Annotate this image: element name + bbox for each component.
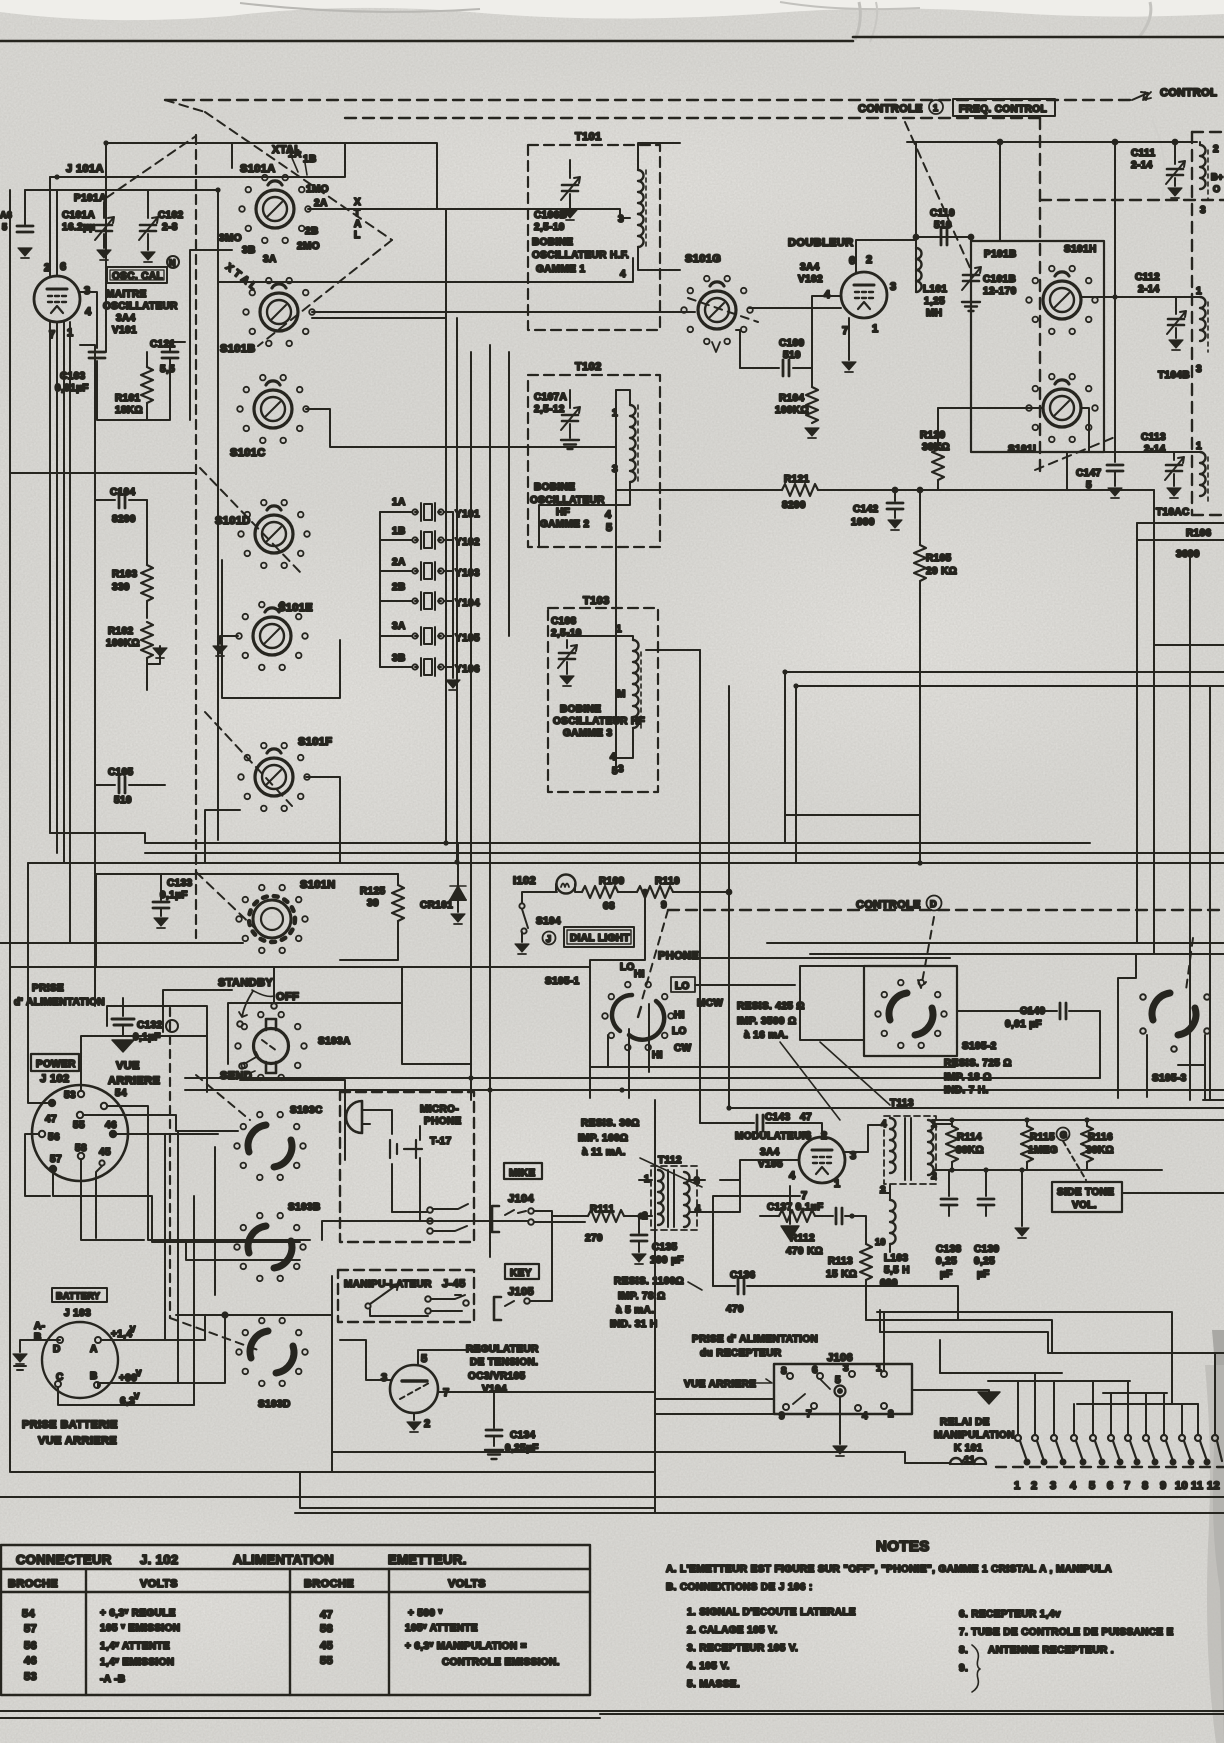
svg-text:100KΩ: 100KΩ bbox=[106, 638, 140, 649]
svg-text:T10AC: T10AC bbox=[1156, 507, 1190, 518]
dashed into S105-3 bbox=[1186, 938, 1193, 990]
svg-text:1,4ᵛ ATTENTE: 1,4ᵛ ATTENTE bbox=[100, 1641, 170, 1652]
svg-text:J106: J106 bbox=[827, 1352, 853, 1364]
dashed gang S103 vertical bbox=[169, 1008, 171, 1318]
capacitor C110 bbox=[941, 229, 947, 245]
svg-text:K 101: K 101 bbox=[954, 1443, 983, 1454]
svg-text:R113: R113 bbox=[828, 1256, 853, 1267]
svg-text:J-45: J-45 bbox=[442, 1278, 466, 1290]
dashed controle bus 1 bbox=[165, 99, 1132, 101]
svg-text:3A: 3A bbox=[392, 621, 406, 632]
svg-text:POWER: POWER bbox=[36, 1059, 76, 1070]
tube V104 bbox=[390, 1365, 438, 1413]
svg-text:3: 3 bbox=[880, 1185, 886, 1196]
svg-text:B: B bbox=[90, 1371, 98, 1382]
svg-text:330: 330 bbox=[112, 582, 130, 593]
freq control box bbox=[953, 99, 1055, 116]
svg-text:RESIS. 425 Ω: RESIS. 425 Ω bbox=[737, 1001, 805, 1012]
wire grid bus bbox=[50, 190, 218, 840]
svg-text:58: 58 bbox=[320, 1623, 333, 1635]
svg-text:46: 46 bbox=[24, 1655, 37, 1667]
svg-text:2B: 2B bbox=[392, 582, 406, 593]
svg-text:S101E: S101E bbox=[278, 602, 313, 614]
svg-text:2: 2 bbox=[821, 1130, 828, 1142]
svg-text:C112: C112 bbox=[1135, 272, 1160, 283]
svg-text:2,5-10: 2,5-10 bbox=[534, 222, 565, 233]
svg-text:P101A: P101A bbox=[74, 193, 107, 204]
wire left edge bbox=[25, 190, 50, 224]
svg-text:S105-3: S105-3 bbox=[1152, 1073, 1187, 1084]
svg-text:S101G: S101G bbox=[685, 253, 721, 265]
svg-text:C139: C139 bbox=[974, 1244, 1000, 1255]
svg-text:15 KΩ: 15 KΩ bbox=[826, 1269, 857, 1280]
capacitor C104 bbox=[119, 492, 125, 508]
svg-text:46: 46 bbox=[105, 1120, 117, 1131]
svg-text:4: 4 bbox=[610, 752, 616, 763]
svg-text:IMP. 78 Ω: IMP. 78 Ω bbox=[618, 1291, 666, 1302]
svg-text:3: 3 bbox=[1050, 1480, 1057, 1492]
svg-text:BATTERY: BATTERY bbox=[56, 1291, 100, 1301]
svg-text:45: 45 bbox=[99, 1147, 111, 1158]
svg-text:RESIS. 1100Ω: RESIS. 1100Ω bbox=[614, 1276, 684, 1287]
svg-text:C135: C135 bbox=[652, 1242, 678, 1253]
svg-text:T104B: T104B bbox=[1158, 370, 1190, 381]
svg-text:1: 1 bbox=[1196, 441, 1202, 452]
wire v101 pin3 bbox=[80, 292, 97, 348]
svg-text:5: 5 bbox=[1089, 1480, 1096, 1492]
svg-text:R120: R120 bbox=[920, 430, 946, 441]
svg-text:MANIPULATION: MANIPULATION bbox=[934, 1430, 1015, 1441]
capacitor C138 bbox=[948, 1170, 950, 1196]
svg-text:MIKE: MIKE bbox=[509, 1168, 536, 1179]
svg-text:3A: 3A bbox=[263, 254, 277, 265]
wire box around switches bbox=[190, 143, 340, 862]
svg-text:L101: L101 bbox=[923, 284, 947, 295]
svg-text:D: D bbox=[53, 1344, 61, 1355]
svg-text:V101: V101 bbox=[112, 325, 137, 336]
svg-text:510: 510 bbox=[934, 220, 952, 231]
svg-text:9: 9 bbox=[661, 900, 667, 911]
svg-text:54: 54 bbox=[22, 1608, 36, 1620]
svg-text:SIDE TONE: SIDE TONE bbox=[1057, 1187, 1114, 1198]
wire S101I right bbox=[1082, 408, 1195, 452]
crystal Y101 bbox=[412, 503, 443, 521]
svg-text:PRISE d' ALIMENTATION: PRISE d' ALIMENTATION bbox=[692, 1334, 818, 1345]
svg-text:20 KΩ: 20 KΩ bbox=[926, 566, 957, 577]
ground under crystals bbox=[446, 680, 460, 690]
svg-text:S103D: S103D bbox=[258, 1399, 291, 1410]
wire y1120 bbox=[729, 1108, 1224, 1120]
svg-text:47: 47 bbox=[45, 1114, 57, 1125]
svg-text:S101C: S101C bbox=[230, 447, 266, 459]
mic symbol bbox=[346, 1101, 362, 1133]
MIKE box bbox=[504, 1163, 542, 1179]
wire to V102 bbox=[749, 307, 841, 309]
svg-text:1B: 1B bbox=[392, 526, 406, 537]
dashed pointer to C101B bbox=[905, 122, 971, 270]
svg-text:IMP. 3500 Ω: IMP. 3500 Ω bbox=[737, 1016, 797, 1027]
svg-text:Y102: Y102 bbox=[455, 537, 480, 548]
capacitor C139 bbox=[985, 1170, 987, 1196]
svg-text:BOBINE: BOBINE bbox=[532, 237, 573, 248]
svg-text:J105: J105 bbox=[508, 1286, 534, 1298]
svg-text:2MO: 2MO bbox=[297, 241, 320, 252]
svg-text:-A -B: -A -B bbox=[100, 1674, 126, 1685]
svg-text:7: 7 bbox=[1124, 1480, 1131, 1492]
svg-text:57: 57 bbox=[24, 1623, 37, 1635]
svg-text:C147: C147 bbox=[1076, 468, 1102, 479]
svg-text:G: G bbox=[1060, 1130, 1067, 1140]
svg-text:V: V bbox=[130, 1325, 136, 1334]
svg-text:1: 1 bbox=[1196, 286, 1202, 297]
svg-text:MAITRE: MAITRE bbox=[106, 289, 147, 300]
svg-text:J 103: J 103 bbox=[64, 1308, 91, 1319]
svg-text:I102: I102 bbox=[513, 875, 536, 887]
svg-text:4: 4 bbox=[695, 1204, 701, 1215]
wire J101A horizontal bbox=[50, 143, 345, 177]
svg-text:C107A: C107A bbox=[534, 392, 567, 403]
switch S103B bbox=[248, 1226, 292, 1268]
capacitor C134 bbox=[438, 1392, 494, 1428]
svg-text:12-170: 12-170 bbox=[983, 286, 1017, 297]
crystal Y103 bbox=[412, 562, 443, 580]
dashed controle D line bbox=[668, 909, 1224, 911]
svg-text:3: 3 bbox=[890, 281, 897, 293]
svg-text:KEY: KEY bbox=[510, 1268, 532, 1279]
svg-text:REGULATEUR: REGULATEUR bbox=[466, 1344, 539, 1355]
transformer T103 box bbox=[548, 608, 658, 792]
svg-text:CONNECTEUR: CONNECTEUR bbox=[16, 1552, 112, 1567]
connector J102 bbox=[32, 1085, 128, 1181]
wire box C132 bbox=[107, 998, 207, 1092]
svg-text:L103: L103 bbox=[884, 1253, 908, 1264]
wire bus y686 bbox=[796, 686, 1224, 862]
svg-text:X: X bbox=[354, 197, 361, 208]
svg-text:68: 68 bbox=[603, 901, 615, 912]
svg-text:2A: 2A bbox=[314, 198, 328, 209]
svg-text:B: B bbox=[34, 1332, 42, 1343]
table connecteur J102 bbox=[1, 1545, 590, 1695]
svg-text:5: 5 bbox=[2, 222, 7, 232]
svg-text:54: 54 bbox=[115, 1088, 127, 1099]
svg-text:470: 470 bbox=[726, 1304, 744, 1315]
crystal Y102 bbox=[412, 531, 443, 549]
svg-text:A-: A- bbox=[34, 1321, 45, 1332]
svg-text:2-8: 2-8 bbox=[162, 222, 178, 233]
svg-text:J. 102: J. 102 bbox=[140, 1552, 179, 1567]
svg-text:5: 5 bbox=[421, 1353, 428, 1365]
svg-text:ANTENNE RECEPTEUR .: ANTENNE RECEPTEUR . bbox=[988, 1645, 1114, 1656]
svg-text:5. MASSE.: 5. MASSE. bbox=[687, 1679, 740, 1690]
svg-text:OSCILLATEUR: OSCILLATEUR bbox=[103, 301, 178, 312]
svg-text:45: 45 bbox=[320, 1640, 333, 1652]
svg-text:S101A: S101A bbox=[240, 163, 276, 175]
trimmer C106B bbox=[569, 160, 571, 178]
wire V105 pin3 to T113 bbox=[845, 1125, 884, 1152]
svg-text:C132: C132 bbox=[137, 1020, 163, 1031]
coil L103 bbox=[890, 1200, 896, 1244]
svg-text:2. CALAGE 105 V.: 2. CALAGE 105 V. bbox=[687, 1625, 778, 1636]
svg-text:µF: µF bbox=[977, 1269, 990, 1280]
switch S103A bbox=[254, 1019, 289, 1073]
svg-text:3: 3 bbox=[612, 464, 618, 475]
coil T104C bbox=[1200, 452, 1206, 496]
ground arrow big bbox=[912, 1390, 989, 1392]
switch S103C bbox=[248, 1125, 292, 1167]
wire middle horizontals bbox=[185, 1067, 1224, 1090]
svg-text:R101: R101 bbox=[115, 393, 141, 404]
wire V105 pin4 bbox=[720, 1160, 799, 1212]
svg-text:VOLTS: VOLTS bbox=[448, 1578, 486, 1590]
wire vertical x616 bbox=[615, 390, 617, 758]
svg-text:510: 510 bbox=[114, 795, 132, 806]
contact circle bbox=[166, 1020, 178, 1032]
svg-text:C121: C121 bbox=[150, 339, 176, 350]
wire to tube bbox=[50, 177, 57, 276]
POWER box bbox=[31, 1054, 79, 1071]
svg-text:0,1µF: 0,1µF bbox=[160, 890, 188, 901]
ground arrow bbox=[1021, 1170, 1023, 1226]
svg-text:C111: C111 bbox=[1131, 148, 1155, 159]
svg-text:5: 5 bbox=[612, 766, 618, 777]
coil T104A bbox=[1199, 142, 1201, 145]
wire bus y943 bbox=[0, 942, 243, 944]
svg-text:57: 57 bbox=[50, 1154, 62, 1165]
svg-text:DOUBLEUR: DOUBLEUR bbox=[788, 237, 854, 249]
svg-text:9: 9 bbox=[1160, 1480, 1167, 1492]
svg-text:2-14: 2-14 bbox=[1138, 284, 1160, 295]
svg-text:C108: C108 bbox=[551, 616, 577, 627]
svg-text:2: 2 bbox=[424, 1418, 431, 1430]
svg-text:S103A: S103A bbox=[318, 1036, 351, 1047]
svg-text:C104: C104 bbox=[110, 487, 136, 498]
svg-text:1A: 1A bbox=[392, 497, 406, 508]
wire frame S103 bbox=[163, 840, 470, 1295]
manipulateur box bbox=[338, 1270, 474, 1322]
svg-text:S104: S104 bbox=[536, 916, 561, 927]
svg-text:RELAI DE: RELAI DE bbox=[940, 1417, 990, 1428]
svg-text:T101: T101 bbox=[575, 131, 602, 143]
svg-text:MCW: MCW bbox=[697, 998, 723, 1009]
svg-text:S101H: S101H bbox=[1064, 244, 1097, 255]
svg-text:4. 105 V.: 4. 105 V. bbox=[687, 1661, 730, 1672]
svg-text:V102: V102 bbox=[798, 274, 823, 285]
capacitor C143 bbox=[700, 1123, 822, 1136]
svg-text:C142: C142 bbox=[853, 504, 879, 515]
svg-text:8: 8 bbox=[781, 1366, 787, 1377]
svg-text:OSC. CAL: OSC. CAL bbox=[112, 271, 163, 282]
wire bus y672 bbox=[785, 672, 1224, 843]
svg-text:N: N bbox=[169, 258, 176, 268]
capacitor C132 bbox=[122, 1006, 124, 1016]
svg-text:J: J bbox=[546, 934, 551, 944]
svg-text:105 ᵛ EMISSION: 105 ᵛ EMISSION bbox=[100, 1623, 180, 1634]
svg-text:C101B: C101B bbox=[983, 274, 1016, 285]
wire bus y843 bbox=[50, 833, 1090, 843]
svg-text:5,5: 5,5 bbox=[160, 364, 175, 375]
svg-text:LO: LO bbox=[675, 981, 690, 992]
svg-text:GAMME 1: GAMME 1 bbox=[536, 264, 586, 275]
crystal Y106 bbox=[412, 658, 443, 676]
svg-text:B. CONNEXTIONS DE J 106 :: B. CONNEXTIONS DE J 106 : bbox=[666, 1582, 813, 1593]
wire frame y967 bbox=[10, 966, 590, 968]
switch S105-2 bbox=[889, 993, 933, 1035]
wire plate y282 bbox=[218, 258, 633, 282]
ground V104 bbox=[413, 1413, 415, 1420]
wire S101H right bbox=[1082, 296, 1195, 298]
svg-text:R115: R115 bbox=[1030, 1132, 1055, 1143]
svg-text:1. SIGNAL D'ECOUTE LATERALE: 1. SIGNAL D'ECOUTE LATERALE bbox=[687, 1607, 856, 1618]
svg-text:1,25: 1,25 bbox=[924, 296, 945, 307]
svg-text:6: 6 bbox=[60, 261, 67, 273]
svg-text:C109: C109 bbox=[779, 338, 805, 349]
svg-text:D: D bbox=[930, 899, 937, 909]
svg-text:3. RECEPTEUR 105 V.: 3. RECEPTEUR 105 V. bbox=[687, 1643, 798, 1654]
svg-text:A. L'EMETTEUR EST FIGURE SU: A. L'EMETTEUR EST FIGURE SUR "OFF", "PHO… bbox=[666, 1564, 1112, 1575]
svg-text:C110: C110 bbox=[930, 208, 955, 219]
svg-text:GAMME 3: GAMME 3 bbox=[563, 728, 613, 739]
tube V101 bbox=[34, 276, 80, 322]
svg-text:R114: R114 bbox=[957, 1132, 982, 1143]
svg-text:J104: J104 bbox=[508, 1193, 535, 1205]
KEY box bbox=[505, 1264, 539, 1279]
svg-text:600: 600 bbox=[880, 1278, 898, 1289]
svg-text:NOTES: NOTES bbox=[876, 1538, 930, 1555]
svg-text:S105-2: S105-2 bbox=[962, 1041, 997, 1052]
wire pins down bbox=[50, 322, 70, 943]
svg-text:R110: R110 bbox=[655, 876, 680, 887]
svg-text:PRISE: PRISE bbox=[32, 983, 64, 994]
svg-text:O: O bbox=[1213, 184, 1220, 194]
phone jack bbox=[612, 995, 632, 1031]
top paper edge bbox=[0, 0, 1224, 20]
box S101H bbox=[971, 241, 1104, 452]
svg-text:BOBINE: BOBINE bbox=[560, 704, 601, 715]
svg-text:ARRIERE: ARRIERE bbox=[108, 1075, 160, 1087]
svg-text:3: 3 bbox=[694, 1176, 700, 1187]
svg-text:4: 4 bbox=[1070, 1480, 1077, 1492]
svg-text:12: 12 bbox=[1207, 1480, 1220, 1492]
dashed to S105-2 bbox=[918, 917, 934, 988]
side tone box bbox=[1052, 1182, 1122, 1212]
svg-text:8.: 8. bbox=[959, 1645, 968, 1656]
svg-text:1A: 1A bbox=[288, 149, 302, 160]
svg-text:18KΩ: 18KΩ bbox=[115, 405, 143, 416]
svg-text:6: 6 bbox=[1107, 1480, 1114, 1492]
svg-text:510: 510 bbox=[783, 350, 801, 361]
svg-text:+ 6,3ᵛ REGULE: + 6,3ᵛ REGULE bbox=[100, 1608, 176, 1619]
dashed gang S103 bbox=[196, 1075, 250, 1120]
svg-text:VUE: VUE bbox=[116, 1060, 140, 1072]
svg-text:R105: R105 bbox=[926, 553, 952, 564]
svg-text:1: 1 bbox=[933, 103, 938, 113]
svg-text:55: 55 bbox=[73, 1120, 85, 1131]
wire S101B right bbox=[312, 312, 695, 318]
svg-text:11: 11 bbox=[1191, 1480, 1203, 1492]
svg-text:J 101A: J 101A bbox=[66, 163, 104, 175]
dashed controle bus 2 bbox=[345, 117, 1040, 119]
rotary switch S101H bbox=[1043, 272, 1081, 319]
svg-text:à 16 mA.: à 16 mA. bbox=[744, 1030, 788, 1041]
svg-text:P101B: P101B bbox=[984, 249, 1017, 260]
svg-text:S101N: S101N bbox=[300, 879, 336, 891]
svg-text:2,5-10: 2,5-10 bbox=[551, 628, 582, 639]
rotary switch S101A bbox=[256, 181, 294, 228]
svg-text:2: 2 bbox=[931, 1171, 937, 1182]
svg-text:1000: 1000 bbox=[851, 517, 875, 528]
mic battery bbox=[390, 1140, 422, 1158]
trimmer C107A bbox=[569, 390, 571, 408]
rotary switch S101D bbox=[255, 506, 293, 553]
svg-text:3: 3 bbox=[618, 214, 624, 225]
ground bbox=[18, 248, 32, 258]
svg-text:1: 1 bbox=[616, 624, 622, 635]
svg-text:MANIPU-LATEUR: MANIPU-LATEUR bbox=[344, 1279, 432, 1290]
svg-text:6. RECEPTEUR 1,4v: 6. RECEPTEUR 1,4v bbox=[959, 1609, 1061, 1620]
svg-text:8200: 8200 bbox=[782, 500, 806, 511]
svg-text:R102: R102 bbox=[108, 626, 134, 637]
rotary switch S101B bbox=[260, 284, 298, 331]
node N circle bbox=[167, 256, 179, 268]
svg-text:0,25: 0,25 bbox=[936, 1256, 957, 1267]
svg-text:OFF: OFF bbox=[276, 991, 299, 1003]
svg-text:IMP. 160Ω: IMP. 160Ω bbox=[578, 1133, 628, 1144]
svg-text:105ᵛ ATTENTE: 105ᵛ ATTENTE bbox=[405, 1623, 478, 1634]
svg-text:PHONE: PHONE bbox=[424, 1116, 462, 1127]
xtal tags bbox=[292, 158, 307, 175]
svg-text:2: 2 bbox=[44, 262, 51, 274]
bottom long lines bbox=[0, 1497, 1224, 1718]
svg-text:470 KΩ: 470 KΩ bbox=[786, 1246, 823, 1257]
resistor R101 bbox=[141, 367, 153, 403]
svg-text:+ 500 ᵛ: + 500 ᵛ bbox=[408, 1608, 443, 1619]
wire lo box right bbox=[695, 984, 795, 986]
tube V105 bbox=[799, 1137, 845, 1183]
wire right verticals bbox=[785, 452, 1224, 954]
capacitor C100 bbox=[17, 226, 33, 232]
svg-text:A: A bbox=[90, 1344, 98, 1355]
wire S101C right bbox=[306, 409, 616, 447]
dial light box bbox=[564, 927, 634, 947]
dashed to S101I bbox=[1035, 437, 1115, 470]
svg-text:1: 1 bbox=[612, 408, 618, 419]
wire bus y473 bbox=[11, 472, 196, 474]
svg-text:2: 2 bbox=[888, 1409, 894, 1420]
key lever bbox=[370, 1284, 398, 1304]
svg-text:0,1µF: 0,1µF bbox=[133, 1032, 161, 1043]
svg-text:2-14: 2-14 bbox=[1131, 160, 1153, 171]
svg-text:4: 4 bbox=[620, 269, 626, 280]
svg-text:6: 6 bbox=[805, 1130, 812, 1142]
resistor R102 bbox=[141, 622, 153, 658]
svg-text:0,01µF: 0,01µF bbox=[55, 383, 89, 394]
mic contacts bbox=[427, 1207, 433, 1213]
ground battery bbox=[20, 1340, 60, 1352]
svg-text:8: 8 bbox=[1142, 1480, 1149, 1492]
wire crystal bus bbox=[380, 512, 453, 678]
wire right long verticals bbox=[1190, 557, 1210, 1100]
svg-text:+ 6,3ᵛ MANIPULATION =: + 6,3ᵛ MANIPULATION = bbox=[405, 1641, 527, 1652]
svg-text:47: 47 bbox=[800, 1112, 812, 1123]
crystal Y104 bbox=[412, 592, 443, 610]
svg-text:BROCHE: BROCHE bbox=[8, 1578, 58, 1590]
svg-text:MODULATEUR: MODULATEUR bbox=[735, 1131, 810, 1142]
svg-text:EMETTEUR.: EMETTEUR. bbox=[388, 1552, 467, 1567]
connector J103 bbox=[42, 1322, 118, 1398]
wire S101H top bbox=[907, 142, 1197, 241]
jack J105 bbox=[494, 1297, 501, 1320]
svg-text:S101D: S101D bbox=[215, 515, 251, 527]
